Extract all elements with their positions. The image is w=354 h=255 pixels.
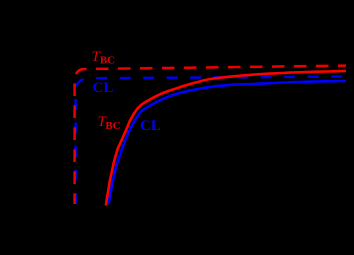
dashed blue CL thermodynamic-limit curve (vertical riser + asymptote): [76, 77, 346, 205]
label T_BC (dashed red asymptote): [92, 49, 116, 67]
label CL (dashed blue asymptote): [93, 81, 114, 96]
label CL (solid blue curve): [140, 119, 161, 134]
label T_BC (solid red curve): [98, 114, 121, 132]
solid red T_BC finite-N curve: [106, 71, 346, 206]
dashed red T_BC thermodynamic-limit curve (vertical riser + asymptote): [75, 66, 346, 204]
solid blue CL finite-N curve: [109, 81, 346, 204]
